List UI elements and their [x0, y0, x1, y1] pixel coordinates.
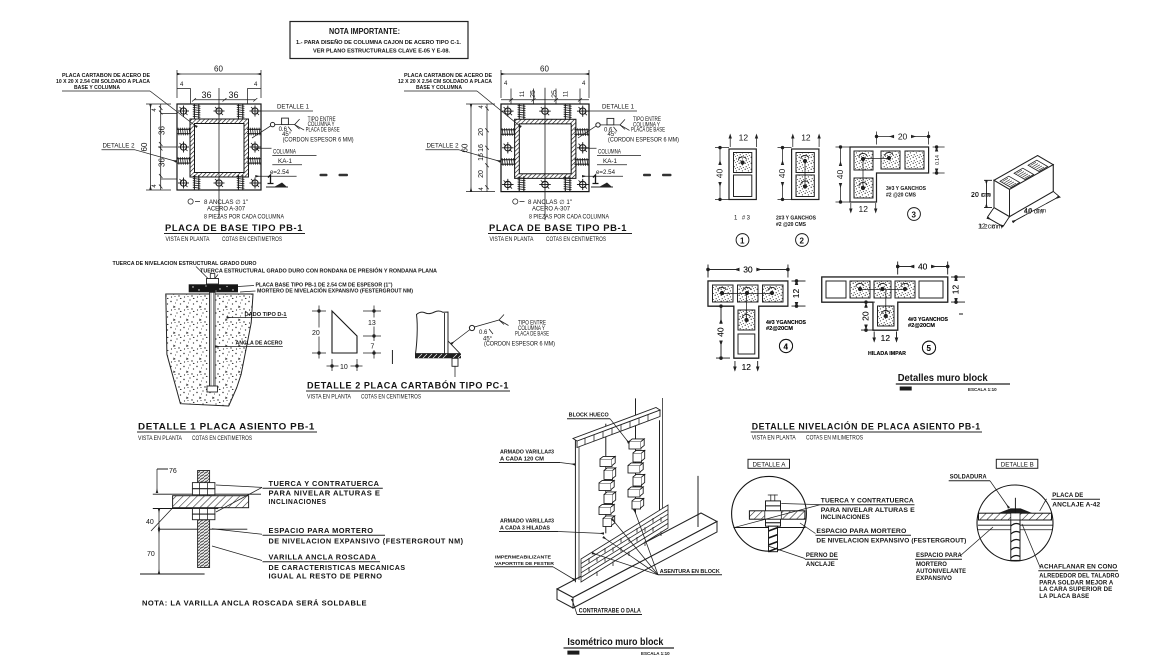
svg-text:ANCLA DE ACERO: ANCLA DE ACERO — [236, 341, 283, 347]
svg-text:1.- PARA DISEÑO DE COLUMNA CAJ: 1.- PARA DISEÑO DE COLUMNA CAJON DE ACER… — [296, 39, 462, 46]
svg-text:IMPERMEABILIZANTE: IMPERMEABILIZANTE — [495, 555, 551, 560]
svg-text:0.6: 0.6 — [479, 330, 488, 336]
svg-text:4: 4 — [784, 343, 789, 352]
svg-text:IGUAL AL RESTO DE PERNO: IGUAL AL RESTO DE PERNO — [269, 572, 383, 581]
svg-text:11: 11 — [564, 90, 570, 97]
svg-text:BASE Y COLUMNA: BASE Y COLUMNA — [416, 85, 462, 91]
svg-text:VISTA EN PLANTA: VISTA EN PLANTA — [490, 237, 534, 243]
svg-text:8 PIEZAS POR CADA COLUMNA: 8 PIEZAS POR CADA COLUMNA — [204, 215, 284, 221]
svg-text:ARMADO VARILLA#3: ARMADO VARILLA#3 — [500, 519, 554, 525]
svg-text:VARILLA ANCLA ROSCADA: VARILLA ANCLA ROSCADA — [269, 553, 377, 562]
svg-text:VISTA EN PLANTA: VISTA EN PLANTA — [307, 395, 351, 401]
svg-text:20: 20 — [478, 128, 485, 136]
svg-text:20 cm: 20 cm — [971, 192, 990, 199]
svg-text:DETALLE 2: DETALLE 2 — [103, 144, 136, 150]
svg-text:LA PLACA BASE: LA PLACA BASE — [1039, 593, 1089, 600]
svg-text:1 #3: 1 #3 — [734, 216, 751, 222]
svg-text:60: 60 — [140, 142, 149, 151]
svg-text:20: 20 — [312, 330, 320, 337]
svg-text:COLUMNA: COLUMNA — [598, 150, 621, 156]
svg-text:3#3 Y GANCHOS: 3#3 Y GANCHOS — [886, 186, 927, 192]
svg-text:10: 10 — [340, 364, 348, 371]
svg-text:PLACA DE: PLACA DE — [1052, 492, 1083, 499]
svg-text:8 ANCLAS ∅ 1": 8 ANCLAS ∅ 1" — [204, 199, 248, 206]
svg-text:MORTERO: MORTERO — [916, 561, 947, 568]
svg-text:20: 20 — [861, 311, 871, 321]
svg-text:ESCALA 1:10: ESCALA 1:10 — [968, 387, 997, 392]
svg-text:1: 1 — [740, 237, 745, 246]
svg-text:A CADA 120 CM: A CADA 120 CM — [500, 457, 544, 463]
svg-text:ACHAFLANAR EN CONO: ACHAFLANAR EN CONO — [1039, 564, 1117, 571]
svg-text:ESPACIO PARA MORTERO: ESPACIO PARA MORTERO — [816, 528, 906, 535]
svg-text:ACERO A-307: ACERO A-307 — [532, 207, 571, 213]
svg-text:ANCLAJE A-42: ANCLAJE A-42 — [1052, 502, 1100, 509]
svg-text:AUTONIVELANTE: AUTONIVELANTE — [916, 568, 966, 575]
svg-text:KA-1: KA-1 — [278, 159, 293, 165]
svg-text:20: 20 — [478, 170, 485, 178]
svg-text:DETALLE A: DETALLE A — [753, 463, 786, 469]
svg-text:TUERCA Y CONTRATUERCA: TUERCA Y CONTRATUERCA — [821, 498, 914, 505]
svg-text:DETALLE B: DETALLE B — [1001, 463, 1034, 469]
svg-text:BASE Y COLUMNA: BASE Y COLUMNA — [74, 85, 120, 91]
svg-text:EXPANSIVO: EXPANSIVO — [916, 575, 952, 582]
svg-text:12: 12 — [801, 133, 811, 143]
svg-text:Isométrico muro block: Isométrico muro block — [567, 636, 663, 648]
svg-text:36: 36 — [202, 90, 212, 100]
svg-text:TUERCA Y CONTRATUERCA: TUERCA Y CONTRATUERCA — [269, 479, 380, 488]
svg-text:DETALLE 1: DETALLE 1 — [602, 105, 635, 111]
svg-text:12 cm: 12 cm — [978, 224, 997, 231]
svg-text:ESPACIO PARA: ESPACIO PARA — [916, 552, 962, 559]
svg-text:DE NIVELACION EXPANSIVO (FESTE: DE NIVELACION EXPANSIVO (FESTERGROUT) — [816, 537, 966, 544]
svg-text:36: 36 — [158, 126, 167, 135]
svg-text:0.14: 0.14 — [935, 155, 941, 165]
svg-text:76: 76 — [169, 468, 177, 475]
svg-text:TUERCA ESTRUCTURAL GRADO DURO: TUERCA ESTRUCTURAL GRADO DURO CON RONDAN… — [200, 267, 437, 275]
svg-text:70: 70 — [147, 551, 155, 558]
svg-text:11: 11 — [520, 90, 526, 97]
svg-text:TUERCA DE NIVELACION ESTRUCTUR: TUERCA DE NIVELACION ESTRUCTURAL GRADO D… — [113, 261, 257, 267]
svg-text:A CADA 3 HILADAS: A CADA 3 HILADAS — [500, 526, 551, 532]
svg-text:HILADA IMPAR: HILADA IMPAR — [868, 351, 906, 357]
svg-text:2: 2 — [800, 237, 805, 246]
svg-text:DETALLE NIVELACIÓN DE PLACA AS: DETALLE NIVELACIÓN DE PLACA ASIENTO PB-1 — [752, 421, 981, 433]
svg-text:PARA NIVELAR ALTURAS E: PARA NIVELAR ALTURAS E — [821, 507, 915, 514]
svg-text:12: 12 — [791, 289, 801, 299]
svg-text:COLUMNA: COLUMNA — [273, 150, 296, 156]
svg-text:ARMADO VARILLA#3: ARMADO VARILLA#3 — [500, 450, 554, 456]
svg-text:DETALLE 2 PLACA CARTABÓN TIPO: DETALLE 2 PLACA CARTABÓN TIPO PC-1 — [307, 380, 509, 392]
svg-text:8 ANCLAS ∅ 1": 8 ANCLAS ∅ 1" — [528, 199, 572, 206]
svg-text:40: 40 — [835, 170, 845, 180]
svg-text:COTAS EN CENTIMETROS: COTAS EN CENTIMETROS — [222, 237, 282, 243]
svg-text:7: 7 — [371, 344, 375, 351]
svg-text:DE NIVELACION EXPANSIVO (FESTE: DE NIVELACION EXPANSIVO (FESTERGROUT NM) — [269, 537, 464, 546]
svg-text:36: 36 — [158, 158, 167, 167]
svg-text:40 cm: 40 cm — [1024, 209, 1043, 216]
svg-text:VAPORTITE DE FESTER: VAPORTITE DE FESTER — [495, 561, 555, 566]
svg-text:12: 12 — [739, 133, 749, 143]
svg-text:CONTRATRABE O DALA: CONTRATRABE O DALA — [579, 609, 642, 615]
svg-text:NOTA: LA VARILLA ANCLA ROSCAD: NOTA: LA VARILLA ANCLA ROSCADA SERÁ SOLD… — [142, 599, 367, 608]
svg-text:VER PLANO ESTRUCTURALES CLAVE: VER PLANO ESTRUCTURALES CLAVE E-05 Y E-0… — [313, 49, 451, 55]
svg-text:60: 60 — [540, 65, 549, 74]
svg-text:(CORDON ESPESOR 6 MM): (CORDON ESPESOR 6 MM) — [484, 342, 555, 348]
svg-text:#2 @20 CMS: #2 @20 CMS — [776, 222, 807, 228]
svg-text:12: 12 — [951, 285, 961, 295]
svg-text:12: 12 — [859, 204, 869, 214]
svg-text:Detalles muro block: Detalles muro block — [898, 372, 988, 384]
svg-text:25: 25 — [552, 90, 559, 98]
svg-text:ESPACIO PARA MORTERO: ESPACIO PARA MORTERO — [269, 526, 374, 535]
svg-text:40: 40 — [146, 519, 154, 526]
svg-text:COTAS EN CENTIMETROS: COTAS EN CENTIMETROS — [546, 237, 606, 243]
svg-text:COTAS EN CENTIMETROS: COTAS EN CENTIMETROS — [192, 436, 252, 442]
svg-text:PLACA DE BASE TIPO PB-1: PLACA DE BASE TIPO PB-1 — [489, 223, 627, 234]
svg-text:NOTA IMPORTANTE:: NOTA IMPORTANTE: — [329, 27, 400, 36]
svg-text:VISTA EN PLANTA: VISTA EN PLANTA — [138, 436, 182, 442]
svg-text:e=2.54: e=2.54 — [270, 170, 290, 176]
svg-text:40: 40 — [777, 169, 787, 179]
svg-text:#2 @20 CMS: #2 @20 CMS — [886, 193, 917, 199]
svg-text:PERNO DE: PERNO DE — [806, 552, 838, 559]
svg-text:COTAS EN MILIMETROS: COTAS EN MILIMETROS — [806, 436, 863, 442]
svg-text:30: 30 — [743, 264, 753, 274]
svg-text:DADO TIPO D-1: DADO TIPO D-1 — [245, 312, 287, 318]
svg-text:16: 16 — [478, 144, 485, 152]
svg-text:VISTA EN PLANTA: VISTA EN PLANTA — [752, 436, 796, 442]
svg-text:INCLINACIONES: INCLINACIONES — [821, 514, 870, 521]
svg-text:20: 20 — [898, 131, 908, 141]
svg-text:8 PIEZAS POR CADA COLUMNA: 8 PIEZAS POR CADA COLUMNA — [529, 215, 609, 221]
svg-text:40: 40 — [918, 261, 928, 271]
svg-text:ESCALA 1:10: ESCALA 1:10 — [641, 651, 670, 656]
svg-text:12: 12 — [881, 333, 891, 343]
svg-text:DETALLE 1: DETALLE 1 — [277, 105, 310, 111]
svg-text:ANCLAJE: ANCLAJE — [806, 561, 835, 568]
svg-text:3: 3 — [912, 211, 917, 220]
svg-text:INCLINACIONES: INCLINACIONES — [269, 497, 327, 506]
svg-text:60: 60 — [461, 143, 470, 152]
svg-text:#2@20CM: #2@20CM — [908, 323, 935, 329]
svg-text:DETALLE 2: DETALLE 2 — [427, 144, 460, 150]
svg-text:ACERO A-307: ACERO A-307 — [207, 207, 246, 213]
svg-text:40: 40 — [716, 327, 726, 337]
svg-text:BLOCK HUECO: BLOCK HUECO — [569, 413, 609, 419]
svg-text:SOLDADURA: SOLDADURA — [950, 474, 987, 481]
svg-text:25: 25 — [530, 90, 537, 98]
svg-text:PLACA DE BASE TIPO PB-1: PLACA DE BASE TIPO PB-1 — [165, 223, 303, 234]
svg-text:60: 60 — [214, 65, 223, 74]
svg-text:5: 5 — [927, 344, 932, 353]
svg-text:40: 40 — [715, 169, 725, 179]
svg-text:13: 13 — [368, 320, 376, 327]
svg-text:#2@20CM: #2@20CM — [766, 326, 793, 332]
svg-text:DETALLE 1 PLACA ASIENTO PB-1: DETALLE 1 PLACA ASIENTO PB-1 — [138, 422, 315, 433]
svg-text:2#3 Y GANCHOS: 2#3 Y GANCHOS — [776, 216, 817, 222]
svg-text:ASENTURA EN BLOCK: ASENTURA EN BLOCK — [660, 569, 720, 575]
svg-text:PLACA DE BASE: PLACA DE BASE — [515, 332, 549, 338]
svg-text:VISTA EN PLANTA: VISTA EN PLANTA — [166, 237, 210, 243]
svg-text:12: 12 — [742, 362, 752, 372]
svg-text:KA-1: KA-1 — [603, 159, 618, 165]
svg-text:COTAS EN CENTIMETROS: COTAS EN CENTIMETROS — [361, 395, 421, 401]
svg-text:e=2.54: e=2.54 — [596, 170, 616, 176]
svg-text:36: 36 — [229, 90, 239, 100]
svg-text:MORTERO DE NIVELACIÓN EXPANSIV: MORTERO DE NIVELACIÓN EXPANSIVO (FESTERG… — [257, 287, 413, 295]
